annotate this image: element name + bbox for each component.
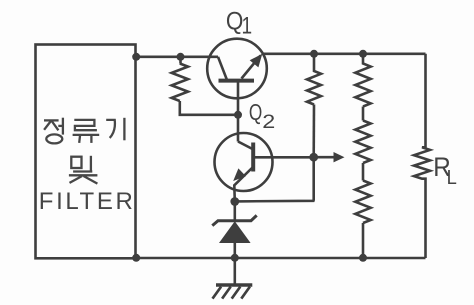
junction dot: sampling chain bottom (359, 254, 367, 262)
wire: between upper resistor and potentiometer (362, 107, 365, 121)
box label: 기 (gi) (106, 118, 124, 141)
wire: bias resistor bottom to Q1 base node (180, 101, 238, 115)
box label: 류 (ryu) (73, 120, 100, 143)
svg-text:Q: Q (249, 99, 262, 125)
wire: zener anode to bottom rail (234, 243, 237, 258)
transistor Q1 base bar (219, 79, 255, 83)
transistor Q2 circle (215, 133, 273, 191)
wire: between potentiometer and lower resistor (362, 163, 365, 181)
resistor (Q1 bias, from input rail) (172, 64, 188, 102)
svg-text:1: 1 (242, 13, 253, 40)
resistor (upper feedback divider) (307, 54, 321, 105)
junction dot: Q2 emitter / zener cathode node (230, 197, 239, 206)
bottom rail wire (136, 257, 426, 260)
junction dot: bias resistor top (177, 53, 185, 61)
ground stub wire (234, 258, 237, 284)
transistor Q2 collector lead (238, 142, 253, 150)
junction dot: box output (top-right) (132, 53, 140, 61)
load resistor RL (414, 54, 430, 258)
svg-text:2: 2 (262, 111, 275, 133)
transistor Q2 base lead to node A (253, 156, 313, 159)
resistor (sampling divider upper) (355, 54, 370, 107)
transistor Q2 emitter lead (234, 168, 252, 202)
zener diode cathode bar (212, 215, 256, 225)
wiper arrow to potentiometer (314, 152, 345, 162)
box label: 및 (mit) (69, 156, 98, 184)
box label: 정 (jeong) (44, 118, 63, 144)
wire: sampling chain to bottom rail (362, 223, 365, 258)
svg-text:L: L (447, 167, 457, 189)
wire: feedback resistor to node A (312, 105, 315, 158)
wire: node A down and left to zener node (235, 157, 314, 201)
zener diode anode triangle (219, 221, 251, 243)
wire: input rail from box to Q1 collector (136, 55, 219, 58)
transistor Q1 circle (207, 39, 267, 99)
label Q2 (249, 99, 275, 133)
wire: zener node down to cathode bar (234, 202, 237, 220)
transistor Q1 collector lead (218, 57, 227, 80)
label Q1 (226, 8, 252, 40)
transistor Q2 emitter arrowhead (233, 168, 246, 181)
junction dot: output rail / upper feedback resistor (310, 50, 318, 58)
transistor Q1 base lead (down to Q2) (237, 81, 240, 142)
junction dot: zener / ground stub on bottom rail (231, 254, 239, 262)
svg-text:FILTER: FILTER (39, 188, 133, 215)
label RL (433, 152, 457, 189)
ground symbol (hatched) (213, 285, 253, 299)
junction dot: box bottom-right corner (132, 254, 140, 262)
wire: output rail (Q1 emitter to right edge) (262, 52, 426, 55)
transistor Q1 emitter arrowhead (250, 54, 263, 68)
wire: input rail dot to bias resistor (179, 57, 182, 64)
resistor (sampling divider lower) (355, 181, 370, 224)
transistor Q1 emitter lead (242, 56, 261, 79)
rectifier/filter block box (36, 45, 136, 259)
junction dot: output rail / sampling chain top (359, 50, 367, 58)
potentiometer resistance element (355, 121, 370, 164)
transistor Q2 base bar (251, 143, 255, 172)
junction dot: Q1 base node (234, 111, 242, 119)
node A junction dot (Q2 base node) (309, 153, 318, 162)
